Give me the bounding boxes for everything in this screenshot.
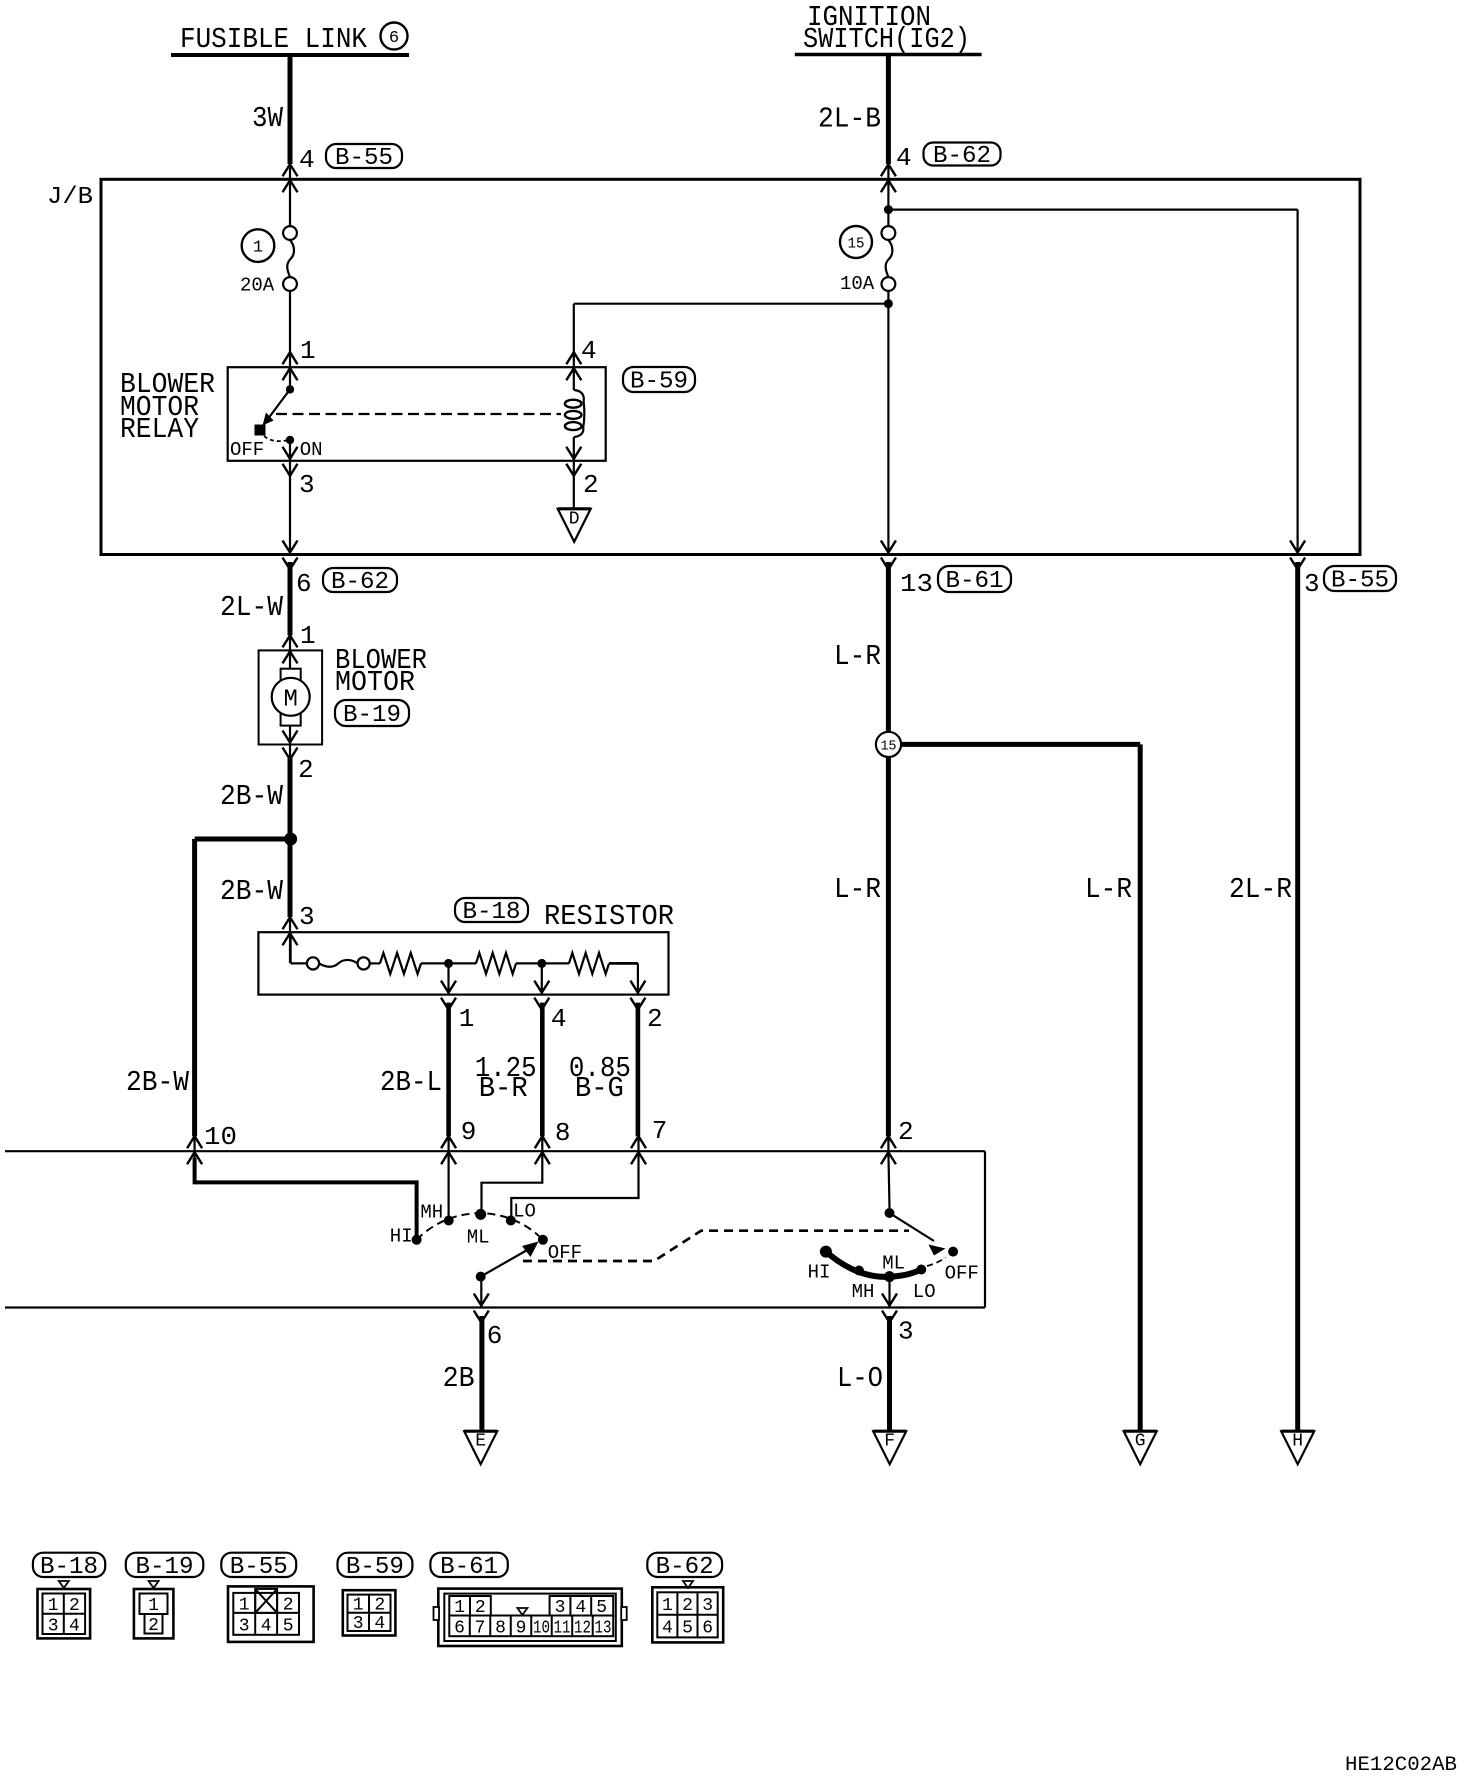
svg-text:B-59: B-59 — [630, 369, 688, 396]
svg-text:12: 12 — [574, 1619, 591, 1639]
svg-text:8: 8 — [495, 1619, 506, 1639]
svg-text:7: 7 — [652, 1116, 668, 1146]
svg-text:4: 4 — [581, 336, 597, 366]
svg-text:B-G: B-G — [575, 1072, 624, 1105]
svg-text:ML: ML — [467, 1227, 490, 1249]
svg-text:RELAY: RELAY — [120, 413, 199, 446]
svg-text:2: 2 — [647, 1004, 663, 1034]
svg-text:2B-W: 2B-W — [126, 1066, 190, 1099]
svg-text:LO: LO — [513, 1200, 536, 1222]
svg-text:4: 4 — [299, 145, 315, 175]
svg-text:4: 4 — [261, 1617, 272, 1637]
svg-text:2: 2 — [69, 1596, 80, 1616]
svg-text:4: 4 — [374, 1614, 385, 1634]
svg-text:B-55: B-55 — [335, 145, 393, 172]
svg-text:HI: HI — [390, 1226, 413, 1248]
svg-text:10: 10 — [533, 1619, 550, 1639]
svg-text:3: 3 — [555, 1598, 566, 1618]
svg-text:3: 3 — [48, 1617, 59, 1637]
svg-text:15: 15 — [881, 739, 897, 755]
svg-text:B-62: B-62 — [933, 143, 991, 170]
svg-text:3: 3 — [239, 1617, 250, 1637]
svg-text:1: 1 — [253, 239, 263, 258]
svg-text:4: 4 — [662, 1619, 673, 1639]
svg-text:B-R: B-R — [479, 1072, 528, 1105]
svg-text:3: 3 — [898, 1317, 914, 1347]
svg-text:1: 1 — [300, 336, 316, 366]
svg-text:4: 4 — [551, 1004, 567, 1034]
svg-text:7: 7 — [475, 1619, 486, 1639]
svg-text:HE12C02AB: HE12C02AB — [1345, 1754, 1457, 1777]
svg-text:F: F — [884, 1432, 895, 1452]
svg-text:1: 1 — [48, 1596, 59, 1616]
svg-text:1: 1 — [353, 1596, 364, 1616]
svg-text:B-18: B-18 — [463, 899, 521, 926]
svg-text:B-61: B-61 — [440, 1554, 498, 1581]
svg-text:2L-B: 2L-B — [818, 103, 881, 136]
svg-text:H: H — [1292, 1432, 1303, 1452]
svg-text:5: 5 — [682, 1619, 693, 1639]
svg-text:OFF: OFF — [945, 1263, 979, 1285]
svg-text:15: 15 — [848, 236, 865, 253]
svg-text:2B-L: 2B-L — [380, 1066, 442, 1099]
svg-text:HI: HI — [808, 1261, 831, 1283]
svg-text:10: 10 — [204, 1122, 237, 1152]
svg-text:L-O: L-O — [837, 1362, 883, 1395]
svg-text:B-62: B-62 — [331, 569, 389, 596]
svg-text:3: 3 — [299, 902, 315, 932]
svg-text:2: 2 — [374, 1596, 385, 1616]
svg-text:20A: 20A — [240, 275, 275, 297]
svg-text:2: 2 — [298, 755, 314, 785]
svg-text:6: 6 — [389, 29, 399, 48]
svg-text:1: 1 — [148, 1596, 159, 1616]
svg-text:D: D — [569, 509, 580, 529]
svg-text:11: 11 — [553, 1619, 570, 1639]
svg-text:FUSIBLE LINK: FUSIBLE LINK — [180, 23, 368, 56]
svg-text:2: 2 — [475, 1598, 486, 1618]
svg-text:1: 1 — [300, 621, 316, 651]
svg-text:2: 2 — [148, 1616, 159, 1636]
svg-text:3: 3 — [353, 1614, 364, 1634]
svg-text:3: 3 — [702, 1596, 713, 1616]
svg-text:1: 1 — [662, 1596, 673, 1616]
svg-text:B-62: B-62 — [656, 1554, 714, 1581]
svg-text:LO: LO — [913, 1281, 936, 1303]
svg-text:6: 6 — [487, 1321, 503, 1351]
svg-text:2: 2 — [682, 1596, 693, 1616]
svg-text:2B-W: 2B-W — [220, 780, 284, 813]
svg-text:2L-W: 2L-W — [220, 591, 284, 624]
svg-text:L-R: L-R — [1085, 873, 1132, 906]
svg-text:2: 2 — [898, 1117, 914, 1147]
svg-text:5: 5 — [283, 1617, 294, 1637]
svg-text:1: 1 — [459, 1004, 475, 1034]
svg-text:1: 1 — [239, 1596, 250, 1616]
svg-text:6: 6 — [702, 1619, 713, 1639]
svg-text:B-55: B-55 — [1331, 568, 1389, 595]
svg-text:2: 2 — [583, 470, 599, 500]
svg-text:B-19: B-19 — [136, 1554, 194, 1581]
svg-text:L-R: L-R — [834, 873, 881, 906]
svg-text:10A: 10A — [840, 273, 875, 295]
svg-text:RESISTOR: RESISTOR — [544, 900, 674, 933]
svg-text:B-55: B-55 — [230, 1554, 288, 1581]
svg-text:13: 13 — [594, 1619, 611, 1639]
svg-text:2: 2 — [283, 1596, 294, 1616]
svg-text:ML: ML — [882, 1253, 905, 1275]
svg-text:M: M — [283, 687, 297, 714]
svg-text:9: 9 — [461, 1117, 477, 1147]
svg-text:B-61: B-61 — [946, 568, 1004, 595]
svg-text:6: 6 — [296, 569, 312, 599]
svg-text:E: E — [475, 1432, 486, 1452]
svg-text:ON: ON — [300, 439, 323, 461]
svg-text:4: 4 — [69, 1617, 80, 1637]
svg-text:13: 13 — [900, 569, 933, 599]
svg-text:B-19: B-19 — [343, 702, 401, 729]
svg-text:MH: MH — [852, 1281, 875, 1303]
svg-text:G: G — [1135, 1432, 1146, 1452]
svg-text:5: 5 — [596, 1598, 607, 1618]
svg-text:2B: 2B — [443, 1362, 475, 1395]
svg-text:6: 6 — [454, 1619, 465, 1639]
svg-text:L-R: L-R — [834, 640, 881, 673]
svg-text:2B-W: 2B-W — [220, 875, 284, 908]
svg-text:3: 3 — [1304, 569, 1320, 599]
svg-text:3: 3 — [299, 470, 315, 500]
svg-text:9: 9 — [516, 1619, 527, 1639]
svg-text:1: 1 — [454, 1598, 465, 1618]
svg-text:MH: MH — [420, 1201, 443, 1223]
svg-text:J/B: J/B — [47, 184, 93, 211]
svg-text:SWITCH(IG2): SWITCH(IG2) — [803, 23, 970, 56]
svg-text:2L-R: 2L-R — [1229, 873, 1292, 906]
svg-text:OFF: OFF — [230, 439, 264, 461]
svg-text:MOTOR: MOTOR — [335, 666, 415, 699]
svg-text:4: 4 — [896, 143, 912, 173]
svg-text:8: 8 — [555, 1118, 571, 1148]
svg-text:4: 4 — [575, 1598, 586, 1618]
svg-text:B-59: B-59 — [346, 1554, 404, 1581]
svg-text:B-18: B-18 — [40, 1554, 98, 1581]
svg-text:3W: 3W — [252, 102, 284, 135]
